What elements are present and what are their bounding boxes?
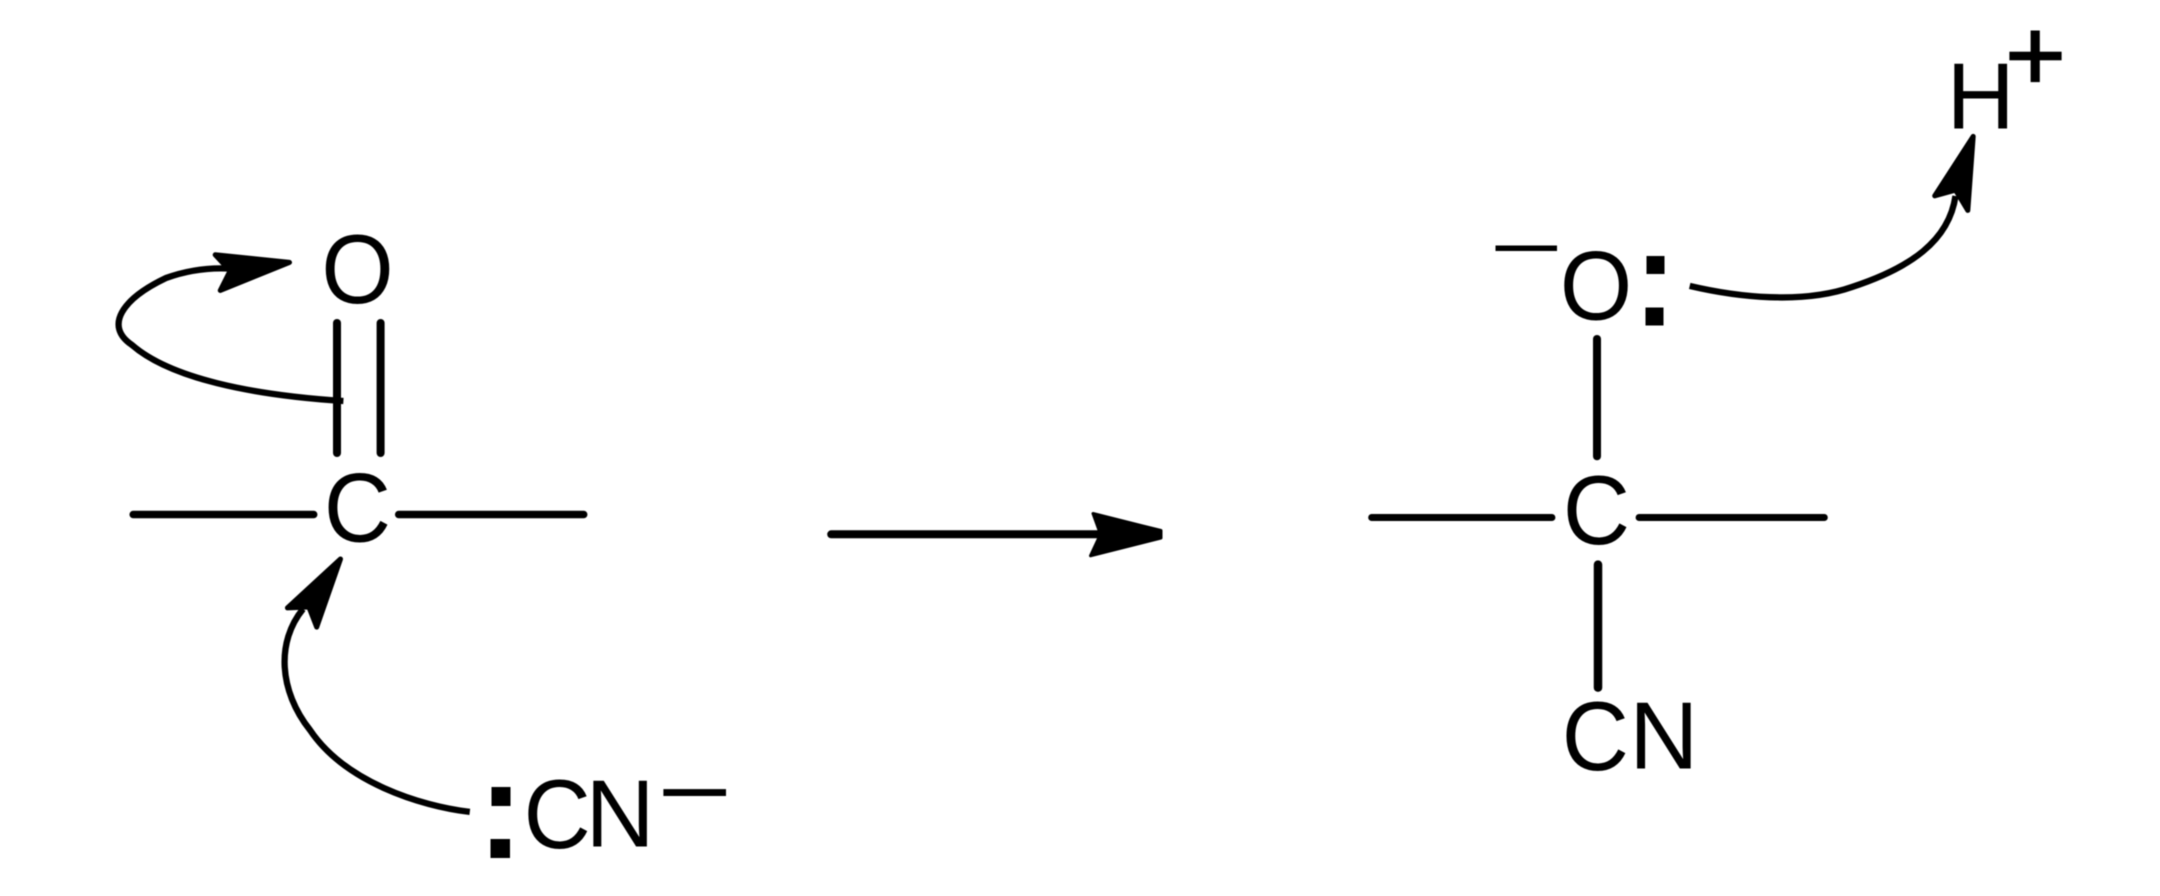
svg-text:C: C <box>1563 456 1630 566</box>
svg-text:C: C <box>324 453 391 563</box>
svg-text:N: N <box>586 761 655 868</box>
svg-text:C: C <box>1562 682 1629 792</box>
svg-text:O: O <box>1560 231 1632 341</box>
svg-text:O: O <box>321 215 393 325</box>
svg-text:N: N <box>1629 683 1698 790</box>
svg-text:C: C <box>524 760 591 870</box>
svg-text:H: H <box>1947 44 2015 149</box>
